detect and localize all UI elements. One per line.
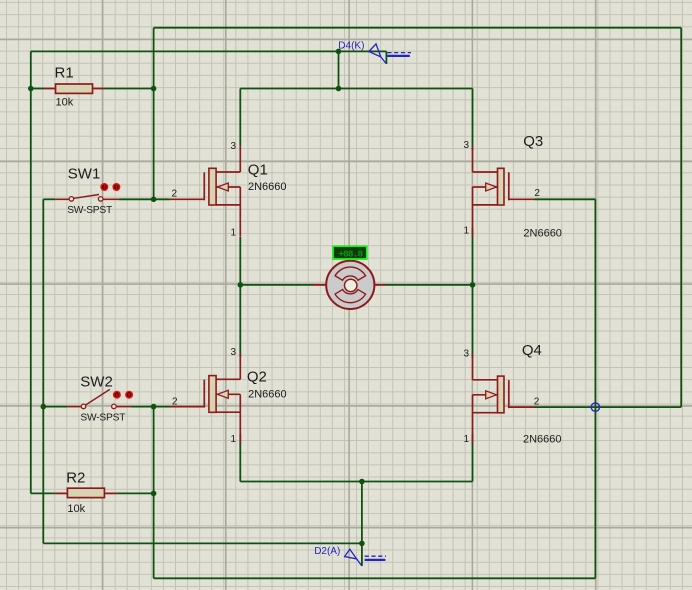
wire Q3 source down [472,228,474,285]
svg-text:1: 1 [463,434,469,445]
wire D2 probe riser [361,482,363,544]
svg-text:Q4: Q4 [522,342,542,359]
motor rpm display +88.8 [333,246,367,259]
svg-text:SW2: SW2 [80,373,113,390]
wire Q2 source down [239,434,241,482]
wire R2 left green [31,492,55,494]
svg-text:1: 1 [230,434,236,445]
svg-text:+88.8: +88.8 [338,248,363,259]
junction D4 top [336,49,342,55]
junction D2 top [359,479,365,485]
wire R1 right green [105,88,154,90]
resistor R2 [55,488,117,497]
junction R1 right [151,86,157,92]
svg-text:10k: 10k [67,503,85,515]
svg-text:3: 3 [230,347,236,358]
wire left outer vertical [30,51,32,493]
voltage probe D2(A) [345,549,386,566]
resistor R1 [44,84,105,93]
svg-text:R2: R2 [66,470,85,487]
svg-text:1: 1 [230,228,236,239]
svg-text:2N6660: 2N6660 [248,389,287,401]
svg-text:3: 3 [463,140,469,151]
svg-text:3: 3 [230,141,236,152]
wire right outer vertical [680,28,682,407]
svg-text:2N6660: 2N6660 [248,181,287,193]
junction R2 right [151,491,157,497]
wire SW2 row right green [131,406,169,408]
wire Q3 drain riser [472,89,474,151]
svg-text:1: 1 [463,226,469,237]
transistor Q1 (2N6660 n-mosfet) [170,146,241,237]
wire mid-left vertical upper segment [153,28,155,200]
junction motor right [470,282,476,288]
svg-text:SW1: SW1 [68,166,101,183]
svg-text:D2(A): D2(A) [314,546,340,557]
svg-text:D4(K): D4(K) [338,41,364,52]
transistor Q3 (2N6660 n-mosfet, mirrored) [473,146,535,237]
wire mid-left vertical lower segment [153,407,155,579]
wire drain header y=88.5 [240,88,472,90]
transistor Q2 (2N6660 n-mosfet) [170,353,241,444]
wire Q4 source down [472,434,474,482]
SW2 toggle button up [113,391,121,399]
svg-text:2: 2 [171,188,177,199]
junction D2 bottom [359,541,365,547]
junction R1 left [28,86,34,92]
svg-text:2N6660: 2N6660 [523,228,562,240]
wire D4 probe drop [338,51,340,88]
svg-text:SW-SPST: SW-SPST [80,413,125,424]
transistor Q4 (2N6660 n-mosfet, mirrored) [473,354,535,445]
wire SW1 row right green [119,198,170,200]
wire top rail (VCC top) [154,27,682,29]
svg-text:2: 2 [534,397,540,408]
svg-text:Q1: Q1 [248,162,268,179]
wire Q1 source to motor [239,237,241,285]
motor M1 (DC motor) [313,261,386,309]
svg-text:SW-SPST: SW-SPST [67,205,112,216]
junction SW2 input [41,404,47,410]
wire second left vertical (switch common) [42,199,44,543]
wire R2 right green [117,492,154,494]
wire Q3 gate to right inner vertical [535,198,596,200]
wire SW2 row left green [43,406,67,408]
wire second top rail y=52 [31,50,387,52]
junction motor left [238,282,244,288]
svg-text:2: 2 [534,188,540,199]
switch SW1 (closed SPST) [55,195,119,202]
wire right inner vertical (Q3 gate to bottom) [594,199,596,578]
junction D4 bottom [336,86,342,92]
svg-text:3: 3 [463,349,469,360]
SW1 toggle button down [112,183,120,191]
junction SW2 output [151,404,157,410]
node marker (blue circle) at Q4 gate crossing [591,403,599,411]
wire R1 left green [31,88,44,90]
SW2 toggle button down [125,391,133,399]
svg-text:Q2: Q2 [247,369,267,386]
wire Q4 gate to right outer vertical [535,406,682,408]
voltage probe D4(K) [369,44,411,64]
svg-text:10k: 10k [56,97,74,109]
switch SW2 (open SPST) [67,389,131,408]
wire motor left lead green [240,284,313,286]
svg-text:2N6660: 2N6660 [523,434,562,446]
svg-text:Q3: Q3 [523,133,543,150]
SW1 toggle button up [100,183,108,191]
junction SW1 output [151,197,157,203]
wire D2 probe stub below rail [361,543,363,566]
wire bottom-most rail [154,577,596,579]
svg-text:2: 2 [172,396,178,407]
wire SW1 row left green [43,198,55,200]
wire bottom rail y=543 [43,542,362,544]
wire bottom inner rail y=481.5 [240,481,472,483]
wire motor to Q2 drain [239,285,241,357]
svg-text:R1: R1 [55,65,74,82]
wire Q1 drain riser [239,89,241,147]
wire motor row to Q4 drain [472,285,474,358]
wire motor right lead green [386,284,473,286]
